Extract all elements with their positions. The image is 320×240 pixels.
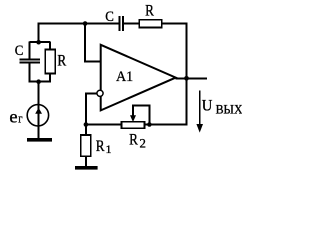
wire cap branch (29, 42, 31, 59)
wire op-amp plus input (85, 23, 101, 62)
wire resistor branch (49, 42, 51, 50)
source eg circle (27, 105, 48, 126)
wire parallel RC bottom rail (30, 81, 51, 83)
wire R1 top (85, 125, 87, 136)
node dot parallel top (36, 40, 41, 45)
svg-text:C: C (105, 9, 114, 25)
ground under source (27, 138, 52, 142)
svg-text:1: 1 (106, 142, 112, 156)
svg-text:e: e (9, 106, 17, 126)
svg-text:U: U (202, 97, 213, 114)
resistor R parallel box (45, 50, 55, 74)
wire output stub (176, 77, 207, 79)
wire source bottom (38, 126, 40, 139)
wire top rail right segment and output drop (145, 24, 187, 125)
wire bottom rail to R2 (86, 124, 122, 126)
resistor R1 box (81, 135, 91, 156)
wire top rail mid segment (124, 23, 139, 25)
op-amp A1 triangle (101, 45, 176, 111)
svg-text:г: г (18, 111, 22, 125)
capacitor C series (top) plates (120, 16, 124, 31)
svg-text:R: R (129, 131, 138, 148)
resistor R top box (139, 20, 162, 28)
R2 wiper arrowhead (130, 115, 136, 122)
wire parallel RC top rail (30, 41, 51, 43)
source eg arrowhead (35, 108, 42, 114)
resistor R2 box (122, 122, 145, 128)
svg-text:C: C (15, 43, 24, 59)
svg-text:R: R (96, 138, 105, 155)
ground under R1 (75, 166, 98, 170)
node dot output (184, 76, 189, 81)
node dot parallel bottom (36, 79, 41, 84)
node dot top rail (83, 21, 88, 26)
wire op-amp minus input (86, 93, 97, 124)
capacitor C parallel plates (20, 59, 41, 62)
wire source to parallel RC (38, 82, 40, 105)
wire R1 bottom (85, 156, 87, 167)
Uout arrowhead (196, 124, 203, 133)
source eg arrow line (38, 105, 40, 126)
svg-text:R: R (57, 53, 66, 70)
op-amp inverting input circle (97, 90, 103, 96)
svg-text:2: 2 (140, 136, 146, 150)
wire top rail left segment (39, 24, 119, 43)
wire R2 wiper loop (133, 106, 150, 125)
svg-text:R: R (145, 3, 154, 20)
node dot R2 wiper (147, 122, 152, 127)
svg-text:ВЫХ: ВЫХ (216, 103, 242, 117)
svg-text:А1: А1 (116, 69, 133, 85)
Uout arrow (199, 91, 201, 127)
node dot R1 top (84, 122, 89, 127)
